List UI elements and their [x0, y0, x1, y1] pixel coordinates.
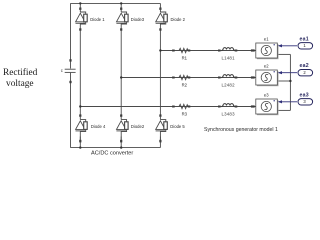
wire blobs row 3 [172, 106, 175, 108]
source e3 signal port mark [274, 100, 275, 101]
wire: column 3 lower [159, 137, 161, 148]
svg-text:Diode 4: Diode 4 [91, 124, 106, 129]
node: neutral rail junction [289, 80, 291, 82]
wire: column 2 middle [120, 29, 122, 116]
node: row1 junction col3 [159, 49, 161, 51]
wire: column 1 upper [79, 3, 81, 8]
wire: top DC bus [71, 2, 161, 4]
wire: column 3 upper [159, 3, 161, 8]
capacitor port tick lower [69, 81, 71, 83]
svg-text:L3483: L3483 [222, 112, 236, 117]
node: top bus junction col1 [79, 2, 81, 4]
svg-text:e3: e3 [264, 92, 269, 97]
wire: neutral rail [289, 54, 291, 110]
wire: column 3 middle [159, 29, 161, 116]
diode D4 bottom col1 [76, 114, 88, 142]
svg-text:ea3: ea3 [300, 92, 309, 98]
svg-text:Diode2: Diode2 [131, 124, 145, 129]
capacitor C bottom plate [65, 71, 76, 73]
signal wire ea3 [279, 101, 297, 103]
node: row3 junction col1 [79, 105, 81, 107]
inport ea2 [298, 70, 313, 76]
svg-text:Diode 2: Diode 2 [171, 17, 186, 22]
wire: bottom DC bus [71, 147, 161, 149]
wire: phase row 3 [80, 106, 256, 108]
inductor L2 [222, 75, 236, 78]
svg-text:Synchronous generator model 1: Synchronous generator model 1 [204, 127, 278, 133]
diode D6 bottom col2 [116, 114, 128, 142]
inductor L1 [222, 48, 236, 51]
svg-text:c: c [61, 68, 63, 73]
wire: column 1 middle [79, 29, 81, 116]
node: bottom bus junction col2 [120, 146, 122, 148]
svg-text:L1481: L1481 [222, 56, 236, 61]
wire: phase row 2 [121, 77, 256, 79]
inport ea3 [298, 99, 313, 105]
svg-text:AC/DC converter: AC/DC converter [91, 151, 133, 157]
signal wire ea1 [279, 45, 297, 47]
svg-text:L2482: L2482 [222, 82, 236, 87]
wire: neutral return row 1 [277, 53, 290, 55]
node: bottom bus junction col1 [79, 146, 81, 148]
svg-text:ea1: ea1 [300, 36, 309, 42]
wire: neutral return row 3 [277, 109, 290, 111]
svg-text:e2: e2 [264, 63, 269, 68]
wire blobs row 1 [172, 50, 175, 52]
diode D5 bottom col3 [156, 114, 168, 142]
inductor L3 [222, 104, 236, 107]
svg-text:R2: R2 [182, 82, 188, 87]
wire blobs row 2 [172, 77, 175, 79]
wire: phase row 1 [160, 50, 255, 52]
source e1 signal port mark [274, 44, 275, 45]
capacitor C top plate [65, 68, 76, 70]
source e2 signal port mark [274, 71, 275, 72]
node: top bus junction col2 [120, 2, 122, 4]
wire: column 2 upper [120, 3, 122, 8]
svg-text:ea2: ea2 [300, 63, 309, 69]
inport ea1 [298, 43, 313, 49]
svg-text:Diode 1: Diode 1 [90, 17, 105, 22]
svg-text:Diode3: Diode3 [131, 17, 145, 22]
wire: neutral return row 2 [277, 80, 290, 82]
resistor R2 [179, 75, 188, 79]
wire: column 1 lower [79, 137, 81, 148]
svg-text:Rectified: Rectified [3, 67, 38, 78]
wire: left rail upper (capacitor branch) [70, 3, 72, 68]
diode D3 top col2 [116, 7, 128, 30]
svg-text:Diode 5: Diode 5 [170, 124, 185, 129]
resistor R3 [179, 104, 188, 108]
resistor R1 [179, 48, 188, 52]
signal wire ea2 [279, 72, 297, 74]
diode D1 top col1 [76, 7, 88, 30]
voltage source e2 [256, 70, 279, 86]
svg-text:e1: e1 [264, 36, 269, 41]
wire: column 2 lower [120, 137, 122, 148]
svg-text:R1: R1 [182, 56, 188, 61]
node: row2 junction col2 [120, 76, 122, 78]
wire: left rail lower [70, 73, 72, 148]
svg-text:R3: R3 [182, 112, 188, 117]
capacitor port tick upper [69, 59, 71, 61]
voltage source e3 [256, 99, 279, 115]
svg-text:voltage: voltage [6, 79, 34, 89]
voltage source e1 [256, 43, 279, 59]
diode D2 top col3 [156, 7, 168, 30]
